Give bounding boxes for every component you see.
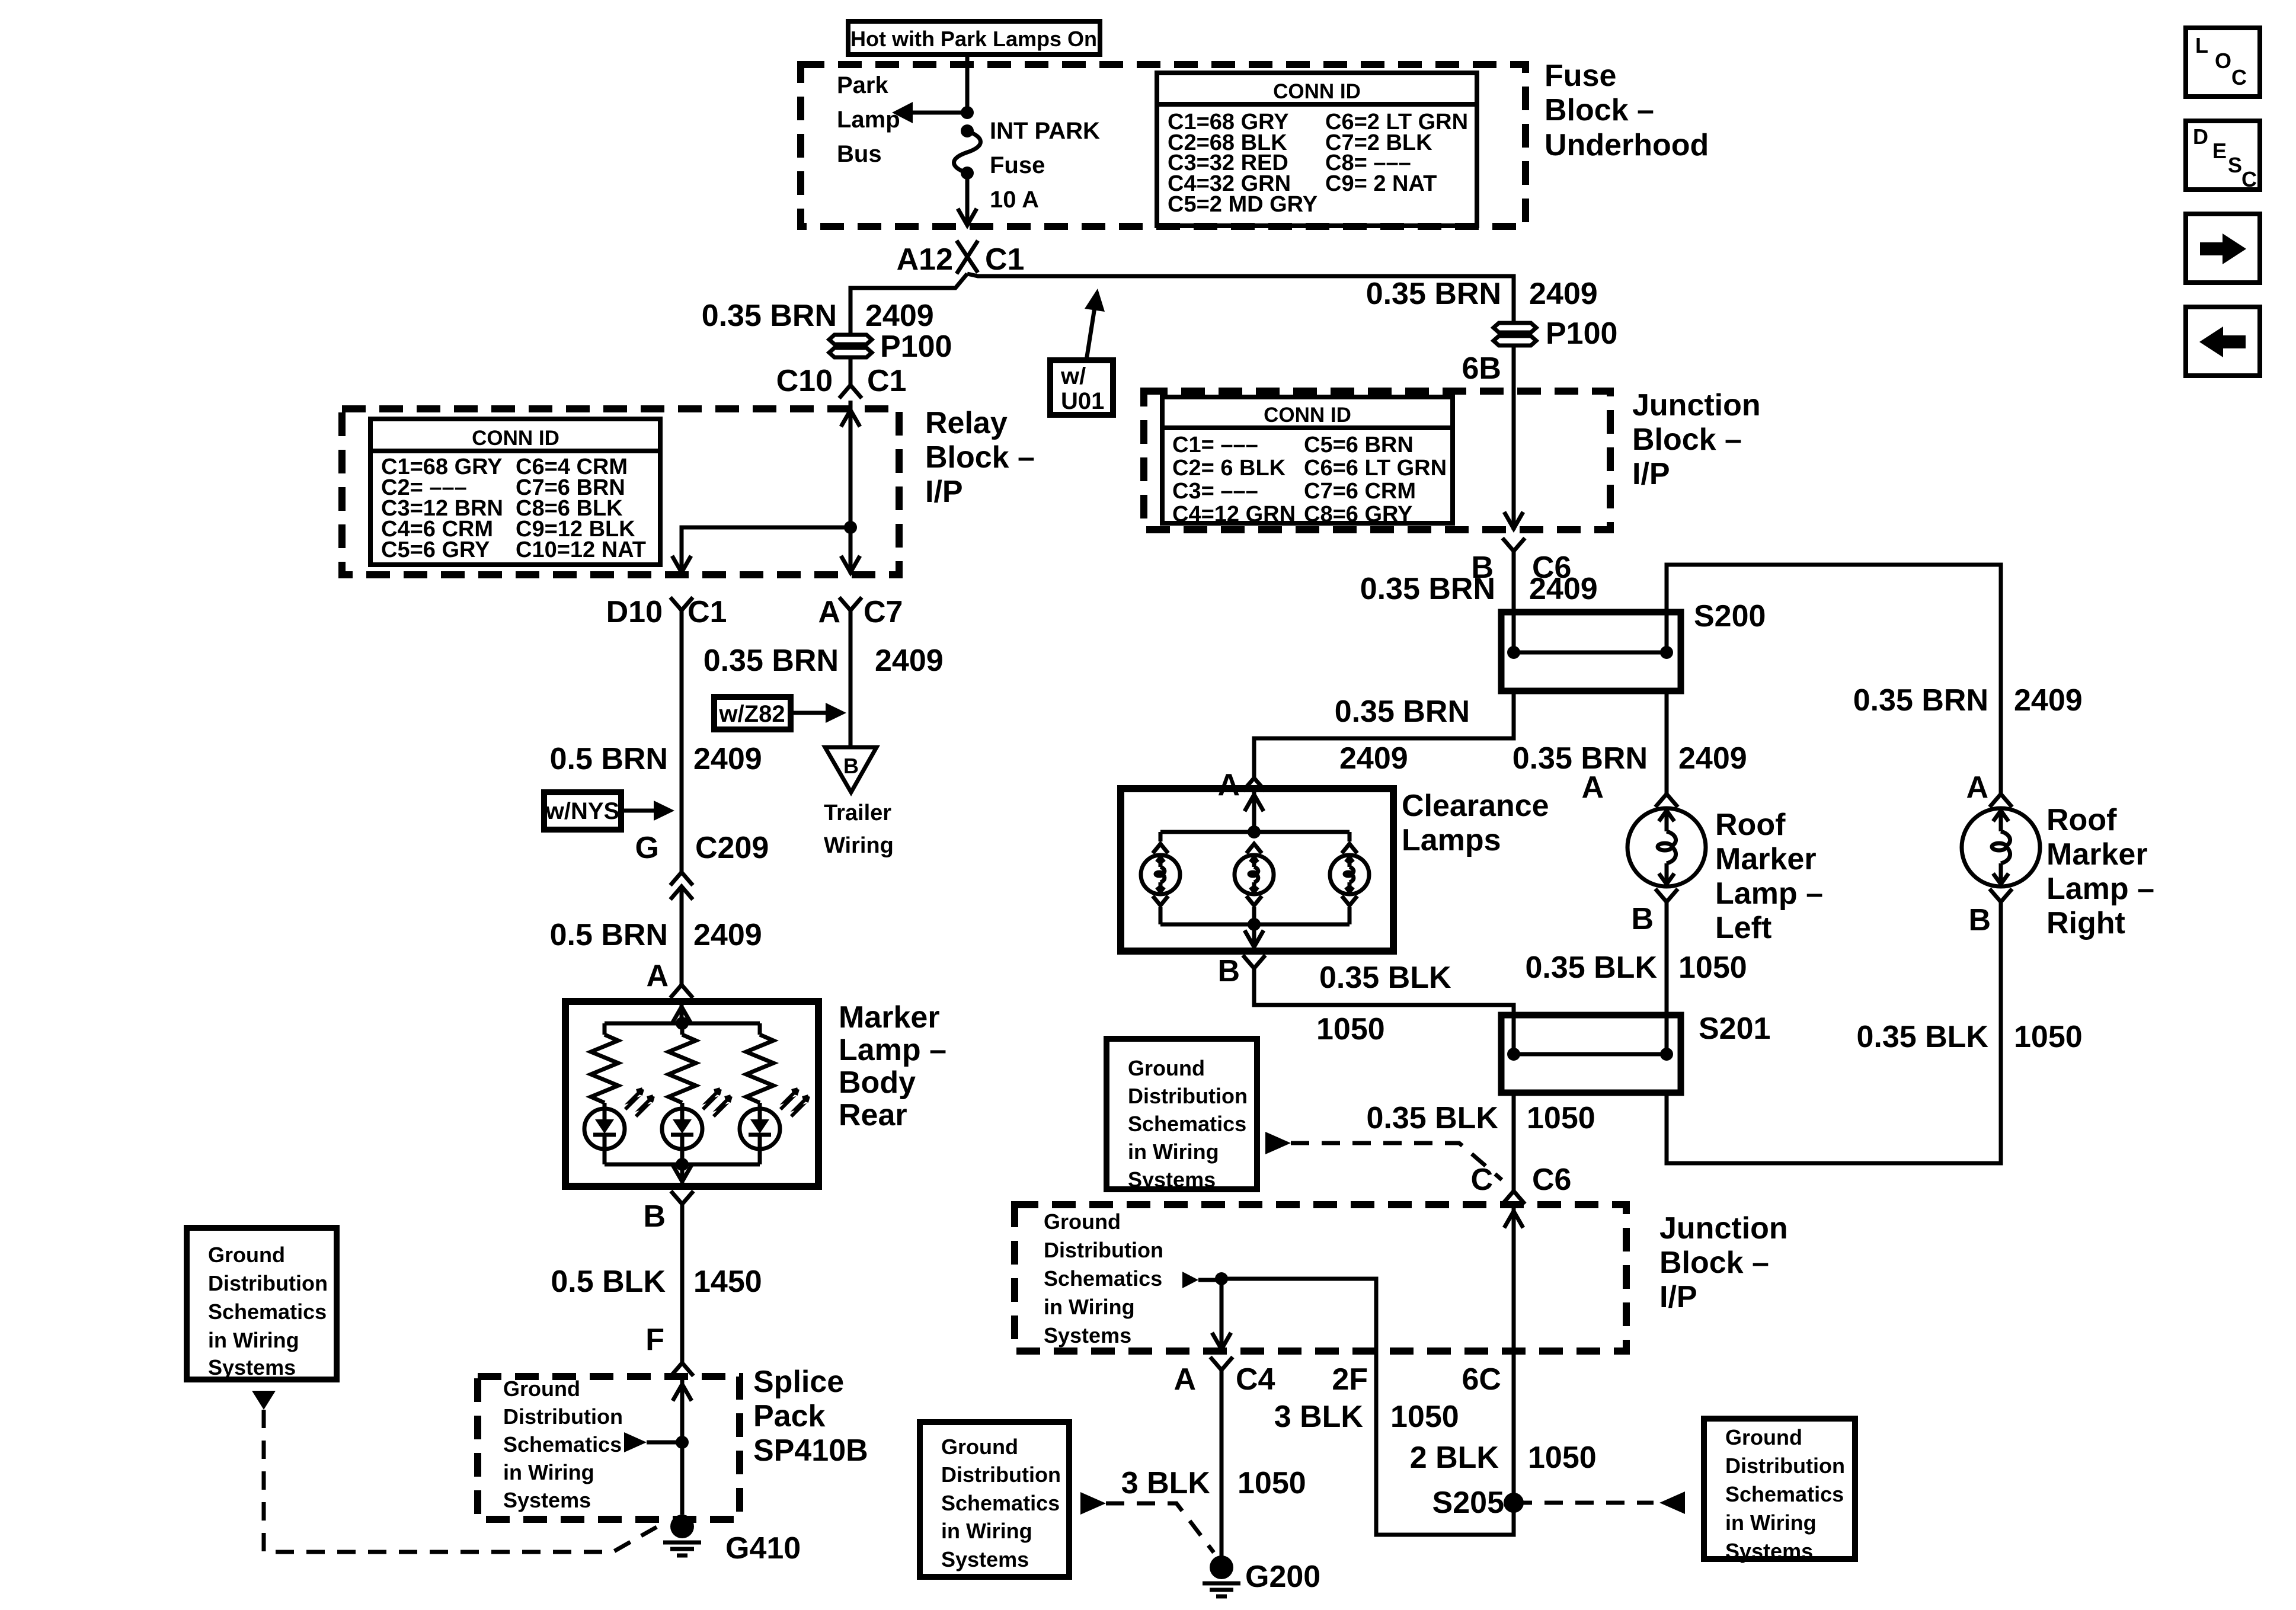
svg-text:in Wiring: in Wiring [1044, 1295, 1135, 1319]
svg-text:Fuse: Fuse [1544, 59, 1616, 93]
svg-text:2409: 2409 [1339, 741, 1408, 776]
svg-text:L: L [2195, 33, 2208, 57]
svg-text:Ground: Ground [941, 1435, 1018, 1459]
svg-text:C1: C1 [985, 242, 1024, 277]
svg-text:C8=6 GRY: C8=6 GRY [1304, 502, 1412, 527]
svg-text:0.35 BLK: 0.35 BLK [1366, 1101, 1498, 1135]
svg-text:B: B [643, 1199, 666, 1234]
svg-text:3 BLK: 3 BLK [1121, 1466, 1211, 1500]
svg-text:S205: S205 [1432, 1486, 1504, 1520]
svg-text:Lamps: Lamps [1402, 823, 1501, 857]
svg-text:10 A: 10 A [990, 187, 1039, 213]
svg-text:Schematics: Schematics [503, 1432, 622, 1457]
svg-text:U01: U01 [1061, 388, 1104, 414]
svg-text:Block –: Block – [1632, 422, 1742, 457]
svg-text:2409: 2409 [1529, 572, 1598, 606]
svg-text:C1= –––: C1= ––– [1172, 433, 1258, 457]
svg-text:0.35 BLK: 0.35 BLK [1856, 1020, 1988, 1054]
svg-text:0.35 BRN: 0.35 BRN [1853, 683, 1988, 718]
svg-text:Systems: Systems [208, 1355, 296, 1379]
svg-text:Schematics: Schematics [208, 1299, 327, 1324]
svg-text:C6: C6 [1532, 1163, 1571, 1197]
svg-text:C: C [1470, 1163, 1493, 1197]
svg-text:B: B [1968, 903, 1991, 937]
svg-text:0.35 BRN: 0.35 BRN [1360, 572, 1495, 606]
svg-text:0.35 BRN: 0.35 BRN [1512, 741, 1648, 776]
svg-text:B: B [843, 754, 859, 778]
svg-text:C4=12 GRN: C4=12 GRN [1172, 502, 1296, 527]
svg-text:1050: 1050 [2014, 1020, 2083, 1054]
svg-text:Ground: Ground [503, 1377, 580, 1401]
svg-text:w/Z82: w/Z82 [718, 701, 785, 727]
svg-text:A: A [1173, 1362, 1196, 1397]
svg-text:Lamp –: Lamp – [1715, 876, 1823, 911]
svg-text:A: A [1581, 770, 1604, 805]
svg-text:CONN ID: CONN ID [1264, 404, 1351, 427]
svg-text:Ground: Ground [1725, 1425, 1802, 1449]
svg-text:Marker: Marker [839, 1000, 940, 1035]
svg-text:1050: 1050 [1678, 950, 1747, 985]
svg-text:Schematics: Schematics [941, 1491, 1060, 1515]
svg-text:C10=12 NAT: C10=12 NAT [516, 537, 646, 562]
svg-text:Bus: Bus [837, 141, 882, 167]
svg-text:Junction: Junction [1659, 1211, 1788, 1246]
svg-text:0.5 BLK: 0.5 BLK [551, 1265, 666, 1299]
svg-text:C6=6 LT GRN: C6=6 LT GRN [1304, 456, 1447, 481]
svg-text:Underhood: Underhood [1544, 128, 1709, 162]
svg-text:G: G [635, 831, 659, 865]
svg-text:2409: 2409 [875, 644, 944, 678]
svg-text:6B: 6B [1462, 351, 1501, 386]
svg-text:Pack: Pack [753, 1399, 826, 1433]
svg-text:Right: Right [2046, 906, 2125, 940]
svg-text:E: E [2212, 139, 2227, 163]
svg-text:F: F [645, 1323, 664, 1357]
svg-text:Systems: Systems [1044, 1323, 1131, 1347]
svg-text:C5=6 GRY: C5=6 GRY [381, 537, 490, 562]
svg-text:0.35 BRN: 0.35 BRN [1366, 277, 1501, 311]
svg-text:0.35 BLK: 0.35 BLK [1319, 961, 1451, 995]
svg-text:0.5 BRN: 0.5 BRN [550, 742, 668, 776]
svg-text:CONN ID: CONN ID [1273, 80, 1361, 103]
svg-text:1450: 1450 [693, 1265, 762, 1299]
svg-text:Marker: Marker [1715, 842, 1817, 876]
svg-text:in Wiring: in Wiring [1128, 1140, 1219, 1164]
svg-text:C1: C1 [867, 364, 906, 398]
svg-text:0.35 BRN: 0.35 BRN [703, 644, 839, 678]
svg-text:Systems: Systems [503, 1488, 591, 1512]
svg-text:B: B [1217, 954, 1240, 988]
svg-text:D10: D10 [606, 595, 663, 629]
svg-text:Rear: Rear [839, 1098, 907, 1132]
svg-text:in Wiring: in Wiring [941, 1519, 1032, 1543]
svg-text:Schematics: Schematics [1128, 1112, 1246, 1136]
svg-text:Systems: Systems [1725, 1539, 1813, 1563]
svg-text:C3= –––: C3= ––– [1172, 479, 1258, 504]
svg-text:Roof: Roof [2046, 803, 2117, 837]
svg-text:C2= 6 BLK: C2= 6 BLK [1172, 456, 1286, 481]
svg-text:Block –: Block – [925, 440, 1035, 475]
svg-text:C9= 2 NAT: C9= 2 NAT [1325, 171, 1437, 196]
svg-text:in Wiring: in Wiring [208, 1328, 299, 1352]
svg-text:Park: Park [837, 72, 888, 98]
svg-text:Ground: Ground [1044, 1209, 1121, 1234]
svg-text:Ground: Ground [1128, 1056, 1205, 1080]
svg-text:1050: 1050 [1390, 1400, 1459, 1434]
svg-text:Systems: Systems [1128, 1167, 1216, 1192]
svg-text:Hot with Park Lamps On: Hot with Park Lamps On [850, 27, 1097, 51]
svg-text:C: C [2231, 65, 2247, 89]
svg-text:Distribution: Distribution [1044, 1238, 1163, 1262]
svg-text:Marker: Marker [2046, 837, 2148, 872]
svg-text:2409: 2409 [693, 742, 762, 776]
svg-text:I/P: I/P [925, 475, 963, 509]
svg-text:0.35 BRN: 0.35 BRN [1335, 694, 1470, 729]
svg-text:I/P: I/P [1659, 1280, 1697, 1314]
svg-text:A: A [646, 959, 669, 993]
svg-text:O: O [2215, 49, 2231, 73]
svg-text:Roof: Roof [1715, 808, 1786, 842]
svg-text:A: A [818, 595, 840, 629]
svg-text:Left: Left [1715, 911, 1771, 945]
svg-text:Relay: Relay [925, 406, 1008, 440]
svg-text:1050: 1050 [1237, 1466, 1306, 1500]
svg-text:1050: 1050 [1316, 1012, 1385, 1046]
svg-text:S200: S200 [1694, 599, 1766, 633]
svg-text:P100: P100 [880, 329, 952, 364]
svg-text:3 BLK: 3 BLK [1274, 1400, 1364, 1434]
svg-text:Schematics: Schematics [1044, 1266, 1162, 1291]
svg-text:C7: C7 [864, 595, 903, 629]
svg-text:B: B [1631, 902, 1654, 936]
svg-text:2409: 2409 [693, 918, 762, 952]
svg-text:w/: w/ [1060, 363, 1086, 389]
svg-text:2F: 2F [1332, 1362, 1368, 1397]
svg-text:Lamp –: Lamp – [2046, 872, 2154, 906]
svg-text:Block –: Block – [1544, 93, 1654, 127]
svg-text:S: S [2228, 153, 2242, 177]
svg-text:2409: 2409 [865, 299, 934, 333]
svg-text:Block –: Block – [1659, 1246, 1769, 1280]
svg-text:INT PARK: INT PARK [990, 118, 1100, 144]
svg-text:G410: G410 [725, 1531, 801, 1566]
svg-text:1050: 1050 [1528, 1441, 1597, 1475]
svg-text:A12: A12 [897, 242, 953, 277]
svg-text:C5=2 MD GRY: C5=2 MD GRY [1168, 192, 1318, 217]
svg-text:Distribution: Distribution [1725, 1454, 1845, 1478]
svg-text:in Wiring: in Wiring [1725, 1510, 1817, 1535]
svg-text:Clearance: Clearance [1402, 789, 1549, 823]
svg-text:1050: 1050 [1527, 1101, 1595, 1135]
svg-text:I/P: I/P [1632, 457, 1670, 491]
svg-text:C5=6 BRN: C5=6 BRN [1304, 433, 1414, 457]
svg-text:G200: G200 [1245, 1560, 1320, 1594]
svg-text:Distribution: Distribution [941, 1462, 1061, 1487]
svg-text:Fuse: Fuse [990, 152, 1045, 178]
svg-text:C7=6 CRM: C7=6 CRM [1304, 479, 1416, 504]
svg-text:C: C [2241, 167, 2257, 191]
svg-text:C209: C209 [695, 831, 769, 865]
svg-text:Schematics: Schematics [1725, 1482, 1844, 1506]
svg-text:in Wiring: in Wiring [503, 1460, 594, 1484]
svg-text:P100: P100 [1546, 316, 1617, 351]
svg-text:A: A [1966, 770, 1988, 805]
svg-text:0.35 BRN: 0.35 BRN [702, 299, 837, 333]
svg-text:Ground: Ground [208, 1243, 285, 1267]
svg-text:D: D [2193, 124, 2208, 149]
svg-text:Body: Body [839, 1065, 916, 1100]
svg-text:0.5 BRN: 0.5 BRN [550, 918, 668, 952]
svg-text:SP410B: SP410B [753, 1433, 868, 1468]
svg-text:Systems: Systems [941, 1547, 1029, 1571]
svg-text:CONN ID: CONN ID [472, 427, 559, 450]
svg-text:Junction: Junction [1632, 388, 1761, 422]
svg-text:C10: C10 [776, 364, 833, 398]
svg-text:Wiring: Wiring [824, 833, 894, 858]
svg-text:Distribution: Distribution [1128, 1084, 1248, 1108]
svg-text:Lamp: Lamp [837, 107, 900, 133]
svg-text:C1: C1 [687, 595, 727, 629]
svg-text:Distribution: Distribution [503, 1404, 623, 1429]
svg-text:Lamp –: Lamp – [839, 1033, 946, 1067]
svg-text:2409: 2409 [2014, 683, 2083, 718]
svg-text:2 BLK: 2 BLK [1410, 1441, 1499, 1475]
svg-text:2409: 2409 [1678, 741, 1747, 776]
svg-text:Distribution: Distribution [208, 1271, 328, 1295]
svg-text:S201: S201 [1699, 1012, 1770, 1046]
svg-text:C4: C4 [1236, 1362, 1275, 1397]
svg-text:Trailer: Trailer [824, 801, 891, 825]
svg-text:Splice: Splice [753, 1365, 844, 1399]
svg-text:6C: 6C [1462, 1362, 1501, 1397]
svg-text:0.35 BLK: 0.35 BLK [1525, 950, 1657, 985]
svg-text:w/NYS: w/NYS [545, 798, 619, 824]
svg-text:2409: 2409 [1529, 277, 1598, 311]
